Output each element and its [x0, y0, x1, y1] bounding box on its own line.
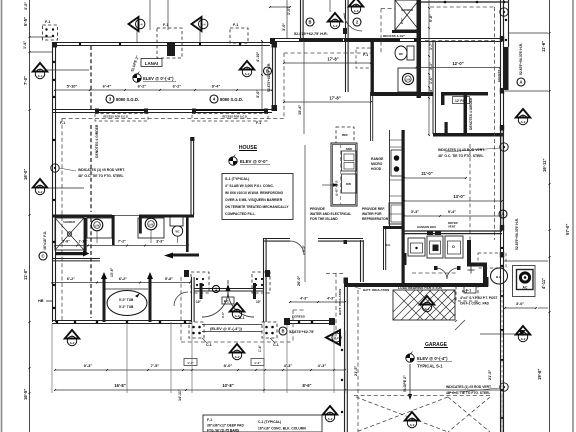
svg-text:17'-8": 17'-8": [329, 96, 340, 101]
kitchen wall right thick: [402, 130, 405, 283]
roof dashed jog up at shower: [380, 9, 382, 54]
svg-text:F-1: F-1: [233, 23, 238, 27]
svg-text:A-3: A-3: [333, 24, 338, 28]
left wall anchor dots: [53, 139, 55, 141]
svg-text:1'-4": 1'-4": [429, 88, 433, 96]
svg-text:6: 6: [39, 184, 41, 188]
shower bottom wall arrow: [56, 252, 85, 255]
bedroom wall stub right: [265, 270, 270, 277]
sgd recess dashed 1: [95, 114, 148, 122]
rod note left circle: [51, 164, 59, 172]
svg-text:15'-4": 15'-4": [298, 104, 302, 115]
entry right wall: [263, 238, 265, 322]
diamond 4/A-3 top: [349, 0, 363, 7]
svg-text:8: 8: [522, 114, 524, 118]
top extension lines: [149, 0, 151, 30]
svg-text:10: 10: [333, 18, 337, 22]
svg-text:EGRESS: EGRESS: [497, 69, 501, 82]
svg-text:6'-4": 6'-4": [103, 84, 112, 89]
svg-text:1'-0": 1'-0": [287, 7, 291, 15]
slope arrow: [409, 364, 411, 396]
load bearing wall thick: [344, 283, 488, 287]
svg-text:5: 5: [246, 66, 248, 70]
svg-text:LOAD BEARING PARTITION: LOAD BEARING PARTITION: [398, 286, 443, 290]
svg-text:A-2: A-2: [425, 307, 430, 311]
posts on top wall: [270, 38, 275, 44]
central hall dims 17-8 lower: [284, 101, 371, 103]
door arc tub: [174, 292, 188, 306]
diamond 2/A-4 left of lanai: [33, 63, 47, 72]
lanai/house wall with sliding doors: [52, 109, 272, 111]
svg-text:21'-5": 21'-5": [488, 369, 492, 380]
svg-text:W.H.: W.H.: [385, 243, 391, 247]
svg-text:A-2: A-2: [245, 72, 250, 76]
marker 1/A-4 top lanai: [129, 17, 139, 31]
diamond 3/A-2 entry: [230, 303, 244, 312]
svg-text:C: C: [41, 254, 44, 259]
svg-text:17'-8": 17'-8": [327, 57, 338, 62]
svg-text:4'-10": 4'-10": [256, 51, 260, 62]
svg-text:16'-5": 16'-5": [23, 389, 28, 400]
house elev marker: [229, 157, 237, 165]
svg-text:F-1: F-1: [224, 300, 229, 304]
svg-text:A-2: A-2: [70, 341, 75, 345]
svg-text:4"x4" S.Y.P. #2 P.T. POST: 4"x4" S.Y.P. #2 P.T. POST: [460, 296, 498, 300]
svg-text:6: 6: [329, 411, 331, 415]
nook dim line y302: [290, 301, 345, 303]
svg-text:5'-8": 5'-8": [165, 277, 173, 281]
central hall dims 17-8 upper: [284, 62, 371, 64]
bath wall mid vertical: [112, 215, 115, 245]
svg-text:1'-6": 1'-6": [429, 76, 433, 84]
porch elev lines: [202, 324, 262, 326]
svg-text:1'-4": 1'-4": [254, 361, 261, 365]
dim 3-0 ac: [505, 307, 536, 309]
garage right wall dashed center: [501, 290, 503, 432]
svg-text:W/ 6X6 #10/10 W.W.M. REINFORCI: W/ 6X6 #10/10 W.W.M. REINFORCING: [225, 191, 284, 195]
entry door arc left: [202, 291, 228, 317]
sgd recess dashed 2: [192, 114, 268, 122]
window sill top wall: [305, 39, 343, 42]
roof dashed top-right horizontal: [430, 6, 494, 8]
svg-text:3'-5": 3'-5": [24, 2, 28, 10]
diamond 4/A-2 bottom right: [405, 412, 419, 421]
post on wall y240: [344, 240, 348, 244]
svg-text:SINK: SINK: [346, 147, 352, 151]
boxed 1-4 label right: [251, 359, 264, 366]
island dw box: [342, 174, 357, 193]
F-1 pad top courtyard: [356, 48, 372, 68]
diamond 6/A-2 left wall: [33, 179, 47, 188]
svg-text:LANAI: LANAI: [145, 61, 158, 66]
svg-text:REF: REF: [342, 133, 348, 137]
lanai top wall: [52, 42, 270, 44]
entry center arrow: [226, 284, 231, 291]
sgd3 tag circle: [106, 95, 114, 103]
C-1 pad right dashed: [262, 322, 277, 338]
island sink box: [342, 151, 357, 171]
svg-text:VENT: VENT: [448, 225, 456, 229]
svg-text:A-2: A-2: [235, 355, 240, 359]
left dim stub 1'-4 lower: [30, 51, 52, 53]
svg-text:3'-6": 3'-6": [256, 90, 260, 98]
svg-text:A-2: A-2: [334, 336, 339, 340]
kitchen dim 13-0: [404, 200, 502, 202]
svg-text:5'-2" TUB: 5'-2" TUB: [119, 305, 134, 309]
svg-text:LAV: LAV: [95, 225, 100, 228]
svg-text:5'-5": 5'-5": [23, 17, 28, 26]
A tag right wall upper: [500, 8, 508, 16]
svg-text:LAV: LAV: [406, 79, 411, 82]
entry door jamb right: [253, 283, 256, 299]
tub left wall: [103, 277, 106, 322]
black post right end: [483, 277, 489, 287]
svg-text:1'-10": 1'-10": [79, 240, 88, 244]
dashed gray kitchen: [469, 144, 471, 262]
svg-text:INDICATES (1) #5 ROD VERT.: INDICATES (1) #5 ROD VERT.: [438, 148, 485, 152]
svg-text:57'-0": 57'-0": [565, 224, 570, 235]
svg-text:MICRO: MICRO: [371, 162, 383, 166]
hall wall left: [52, 258, 100, 260]
kitchen dim 9-4: [440, 215, 502, 217]
svg-text:16"x16" CONC. BLK. COLUMN: 16"x16" CONC. BLK. COLUMN: [258, 427, 306, 431]
shower right wall: [84, 218, 87, 252]
svg-text:RECESS FOR S.G.D.: RECESS FOR S.G.D.: [103, 115, 129, 119]
right ext line y261: [504, 260, 548, 262]
roof dashed top courtyard: [284, 52, 372, 54]
garage overhang dashed left: [335, 273, 337, 340]
svg-text:WATER FOR: WATER FOR: [362, 212, 382, 216]
bath vanity wall left segment: [52, 215, 112, 218]
dark wall band bath: [345, 39, 400, 42]
svg-text:6'-2": 6'-2": [119, 277, 127, 281]
svg-text:BATT. INSULATION: BATT. INSULATION: [363, 288, 389, 292]
svg-text:RECESS FOR S.G.D.: RECESS FOR S.G.D.: [222, 115, 248, 119]
svg-text:SLOPE 2": SLOPE 2": [403, 375, 407, 392]
entry door tag circle 1: [212, 285, 219, 292]
F-1 pad interior left: [191, 272, 209, 293]
top right room east wall: [503, 0, 505, 47]
svg-text:A-4: A-4: [38, 74, 43, 78]
svg-text:1'-4": 1'-4": [23, 41, 27, 49]
svg-text:ELEV @ 0'-(-4"): ELEV @ 0'-(-4"): [417, 356, 448, 361]
wc left bath: [172, 226, 182, 236]
svg-text:FOR THE ISLAND: FOR THE ISLAND: [310, 217, 338, 221]
svg-text:11'-0": 11'-0": [23, 269, 28, 280]
ac pad box: [513, 266, 536, 297]
island dashed centerline: [340, 144, 342, 205]
bath thick wall: [417, 0, 422, 98]
roof dashed below lanai wall: [62, 118, 284, 120]
svg-text:2: 2: [236, 349, 238, 353]
svg-text:C-1: C-1: [273, 343, 279, 347]
partition backhatch: [393, 290, 423, 320]
roof dashed left side: [61, 118, 63, 320]
F-1 pad on lanai wall dashed: [157, 28, 182, 58]
svg-text:6'-2": 6'-2": [138, 84, 147, 89]
C-1 pad left dashed: [189, 322, 204, 338]
svg-text:F-1: F-1: [60, 121, 65, 125]
porch dashed surround left: [180, 277, 182, 342]
range burners: [391, 150, 402, 176]
dim 20-0 rot: [304, 145, 306, 282]
bath left wall: [345, 41, 347, 92]
svg-text:WATER AND ELECTRICAL: WATER AND ELECTRICAL: [310, 212, 351, 216]
svg-text:48" O.C. TIE TO FTG. STEEL: 48" O.C. TIE TO FTG. STEEL: [78, 174, 124, 178]
svg-text:7'-0": 7'-0": [23, 76, 28, 85]
lanai right wall: [272, 41, 274, 110]
svg-text:5: 5: [426, 301, 428, 305]
svg-text:5'-0" TUB: 5'-0" TUB: [119, 298, 134, 302]
svg-text:13'-6": 13'-6": [110, 267, 114, 277]
house bottom wall left: [52, 320, 192, 322]
bath wall x139: [139, 215, 142, 234]
svg-text:12' P.P.: 12' P.P.: [455, 99, 466, 103]
kitchen island outline: [331, 143, 357, 206]
diamond 2/A-2 below entry: [230, 344, 244, 353]
12 pp label: [453, 97, 470, 104]
svg-text:20'-0": 20'-0": [297, 275, 301, 286]
svg-text:48" O.C. TIE TO FTG. STEEL: 48" O.C. TIE TO FTG. STEEL: [446, 391, 490, 395]
garage left wall lower: [344, 287, 346, 432]
lav top right counter: [398, 68, 417, 92]
boxed 1-4 label left: [184, 359, 197, 366]
lanai top wall corner post: [52, 42, 57, 48]
B circle porch: [279, 327, 287, 335]
interior door arc y240: [290, 241, 304, 255]
svg-text:52.875'+50.375' H.R.: 52.875'+50.375' H.R.: [519, 43, 523, 75]
top dim line small: [270, 6, 290, 8]
svg-text:9'-4": 9'-4": [448, 210, 456, 214]
shower bottom left box: [55, 218, 84, 250]
right ext line y91: [505, 90, 548, 92]
svg-text:4'-3": 4'-3": [300, 297, 308, 301]
post on lanai wall: [167, 42, 175, 56]
svg-text:HB: HB: [38, 299, 44, 303]
svg-text:16'-8": 16'-8": [114, 383, 125, 388]
utility left wall corner: [404, 253, 407, 265]
dryer box: [445, 236, 463, 258]
svg-text:(ELEV @ 0'-(-4")): (ELEV @ 0'-(-4")): [210, 326, 243, 331]
garage slab dashed boundary: [357, 290, 359, 432]
bath vanity wall right segment: [139, 215, 194, 218]
tag circle 2 top: [353, 18, 361, 26]
shower bottom wall tr: [392, 30, 421, 33]
A circle right mid: [499, 210, 507, 218]
C circle left: [39, 252, 47, 260]
svg-text:4'-3": 4'-3": [327, 297, 335, 301]
svg-text:1'-7": 1'-7": [429, 42, 433, 50]
A circle right upper: [517, 78, 525, 86]
svg-text:7: 7: [71, 335, 73, 339]
lanai girder dashed line: [90, 46, 92, 109]
diamond 5/A-2 partition: [420, 296, 434, 305]
svg-text:4: 4: [355, 3, 357, 7]
svg-text:3'-3": 3'-3": [411, 210, 419, 214]
diamond 7/A-2 bottom left: [65, 330, 79, 339]
svg-text:8'-6": 8'-6": [302, 383, 311, 388]
bedroom wall stub left: [184, 270, 189, 277]
bath right wall: [432, 41, 434, 134]
wc top right: [395, 46, 407, 60]
diamond 6/A-2 bottom center: [323, 406, 337, 415]
svg-text:OVER A 6 MIL VISQUEEN BARRIER: OVER A 6 MIL VISQUEEN BARRIER: [225, 198, 283, 202]
sliding glass door 4 panels: [192, 109, 196, 114]
svg-text:52.875'+50.375' H.R.: 52.875'+50.375' H.R.: [515, 218, 519, 250]
svg-text:3'-3": 3'-3": [156, 240, 164, 244]
interior wall y238 left: [264, 238, 290, 240]
svg-text:INDICATES (1) #5 ROD VERT.: INDICATES (1) #5 ROD VERT.: [446, 385, 492, 389]
diamond 10/A-3: [328, 13, 342, 22]
diamond 8/A-2 right: [516, 109, 530, 118]
garage rod note circle: [500, 383, 508, 391]
washer box: [427, 236, 443, 258]
marker 3/A-4 top lanai second: [192, 17, 202, 31]
dim 12'-0 top right: [416, 67, 500, 69]
lav leader verticals: [96, 231, 98, 243]
slab note box: [222, 174, 293, 220]
lanai label box: [141, 59, 162, 67]
bath dim line: [55, 245, 188, 247]
sgd4 tag circle: [210, 95, 218, 103]
garage door arcs: [436, 268, 447, 279]
F-1 pad lanai right dashed: [230, 28, 248, 43]
svg-text:5'-10": 5'-10": [67, 84, 78, 89]
svg-text:19'-8": 19'-8": [537, 369, 542, 380]
right ext line y310: [538, 307, 548, 309]
diamond 1/A-2 garage right: [516, 326, 530, 335]
hall wall horizontal: [441, 92, 488, 96]
right dimension line: [549, 0, 551, 432]
door arc top bath: [344, 13, 362, 31]
lanai top wall anchor dots: [79, 43, 81, 45]
svg-text:5'-8": 5'-8": [429, 14, 433, 22]
svg-text:A-3: A-3: [354, 9, 359, 13]
lanai left wall: [52, 42, 54, 322]
diamond 5/A-2 lanai: [240, 61, 254, 70]
svg-text:HOOD: HOOD: [371, 167, 382, 171]
tub back line: [105, 288, 148, 290]
bottom dim row 2: [55, 389, 502, 391]
svg-text:ON TERMITE TREATED MECHANICALL: ON TERMITE TREATED MECHANICALLY: [225, 205, 289, 209]
svg-text:A-4: A-4: [138, 23, 143, 27]
pantry cap wall: [383, 226, 404, 229]
page left border: [1, 0, 3, 432]
svg-text:8'-4": 8'-4": [212, 84, 221, 89]
porch front wall: [285, 320, 334, 322]
svg-text:3'-0": 3'-0": [516, 302, 524, 306]
svg-text:3'-0": 3'-0": [221, 311, 225, 318]
hall wall vertical: [464, 94, 468, 135]
svg-text:WC: WC: [176, 231, 180, 234]
svg-text:A-2: A-2: [410, 423, 415, 427]
svg-text:SHOWER: SHOWER: [63, 220, 75, 224]
roof dashed right of bath: [494, 7, 496, 240]
svg-text:16'-11": 16'-11": [542, 159, 547, 172]
garage slab X hatch: [356, 397, 448, 432]
right wall upper: [500, 0, 502, 240]
svg-text:S-1: S-1: [239, 316, 245, 320]
svg-text:4" SLAB W/ 3,000 P.S.I. CONC.: 4" SLAB W/ 3,000 P.S.I. CONC.: [225, 184, 274, 188]
svg-text:A: A: [519, 80, 522, 85]
house top wall at edge: [420, 1, 509, 3]
svg-text:TYPICAL S-1: TYPICAL S-1: [417, 364, 443, 369]
pantry left wall: [383, 229, 385, 270]
svg-text:7'-5": 7'-5": [151, 363, 160, 368]
utility top wall: [404, 230, 502, 232]
garage right wall: [500, 240, 502, 432]
svg-text:21'-5": 21'-5": [354, 365, 358, 376]
svg-text:8080 S.G.D.: 8080 S.G.D.: [220, 97, 243, 102]
svg-text:21'-0": 21'-0": [421, 171, 432, 176]
svg-text:RANGE: RANGE: [371, 157, 384, 161]
svg-text:36"x36"x12" DEEP PAD: 36"x36"x12" DEEP PAD: [207, 424, 244, 428]
svg-text:8080 S.G.D.: 8080 S.G.D.: [116, 97, 139, 102]
svg-text:3'-8": 3'-8": [62, 240, 70, 244]
bathtub oval: [107, 291, 147, 316]
svg-text:3: 3: [236, 308, 238, 312]
kitchen dim 3-3: [404, 215, 440, 217]
svg-text:B: B: [266, 69, 269, 74]
entry door header: [194, 288, 264, 290]
F-1 boxed label partition: [464, 286, 476, 293]
svg-text:3'-0": 3'-0": [282, 23, 286, 31]
svg-text:F-1: F-1: [207, 418, 212, 422]
left dimension line: [29, 0, 31, 432]
svg-text:FTG. W/ (3) #5 BARS: FTG. W/ (3) #5 BARS: [207, 429, 240, 432]
entry door jamb left: [200, 283, 203, 299]
svg-text:COMPACTED FILL.: COMPACTED FILL.: [225, 212, 256, 216]
lanai dim line: [55, 89, 272, 91]
svg-text:B: B: [281, 329, 284, 334]
svg-text:48"x18" F.G.: 48"x18" F.G.: [43, 231, 47, 250]
garage elev marker: [406, 354, 414, 362]
svg-text:2'-0": 2'-0": [400, 17, 404, 24]
svg-text:DW: DW: [346, 182, 351, 186]
garage slab dashed header: [354, 395, 492, 397]
ref dashed box above island: [336, 127, 354, 143]
svg-text:4'-3": 4'-3": [284, 363, 293, 368]
svg-text:INDICATES (1) #5 ROD VERT.: INDICATES (1) #5 ROD VERT.: [78, 168, 125, 172]
svg-text:C-1 (TYPICAL): C-1 (TYPICAL): [258, 420, 281, 424]
bedroom2 wall vertical: [300, 0, 302, 41]
bh oval: [491, 268, 508, 284]
svg-text:SHOWER: SHOWER: [401, 8, 413, 12]
svg-text:S-1 (TYPICAL): S-1 (TYPICAL): [225, 177, 250, 181]
svg-text:DENOTES 4 GIRDER: DENOTES 4 GIRDER: [95, 124, 99, 158]
svg-text:F-1: F-1: [163, 23, 168, 27]
svg-text:48" O.C. TIE TO FTG. STEEL: 48" O.C. TIE TO FTG. STEEL: [438, 154, 484, 158]
entry door arc right: [228, 291, 254, 317]
kitchen dim 21-0: [404, 177, 466, 179]
house top wall right portion: [270, 38, 502, 40]
bedroom closet wall vertical: [190, 137, 192, 215]
svg-text:9'-3": 9'-3": [84, 363, 93, 368]
roof dashed top right: [425, 40, 495, 42]
svg-text:A-2: A-2: [521, 337, 526, 341]
attic access dashed: [478, 253, 506, 268]
svg-text:PROVIDE: PROVIDE: [310, 207, 326, 211]
svg-text:52.875'+62.75' H.R.: 52.875'+62.75' H.R.: [294, 32, 328, 36]
fridge box: [389, 203, 404, 224]
svg-text:D: D: [452, 245, 455, 249]
svg-text:10'-8": 10'-8": [222, 383, 233, 388]
tag circle B top: [306, 18, 314, 26]
partition hatch box: [393, 290, 455, 320]
entry left wall: [191, 277, 193, 322]
svg-text:F-1: F-1: [363, 53, 368, 57]
tub right wall: [149, 277, 152, 322]
